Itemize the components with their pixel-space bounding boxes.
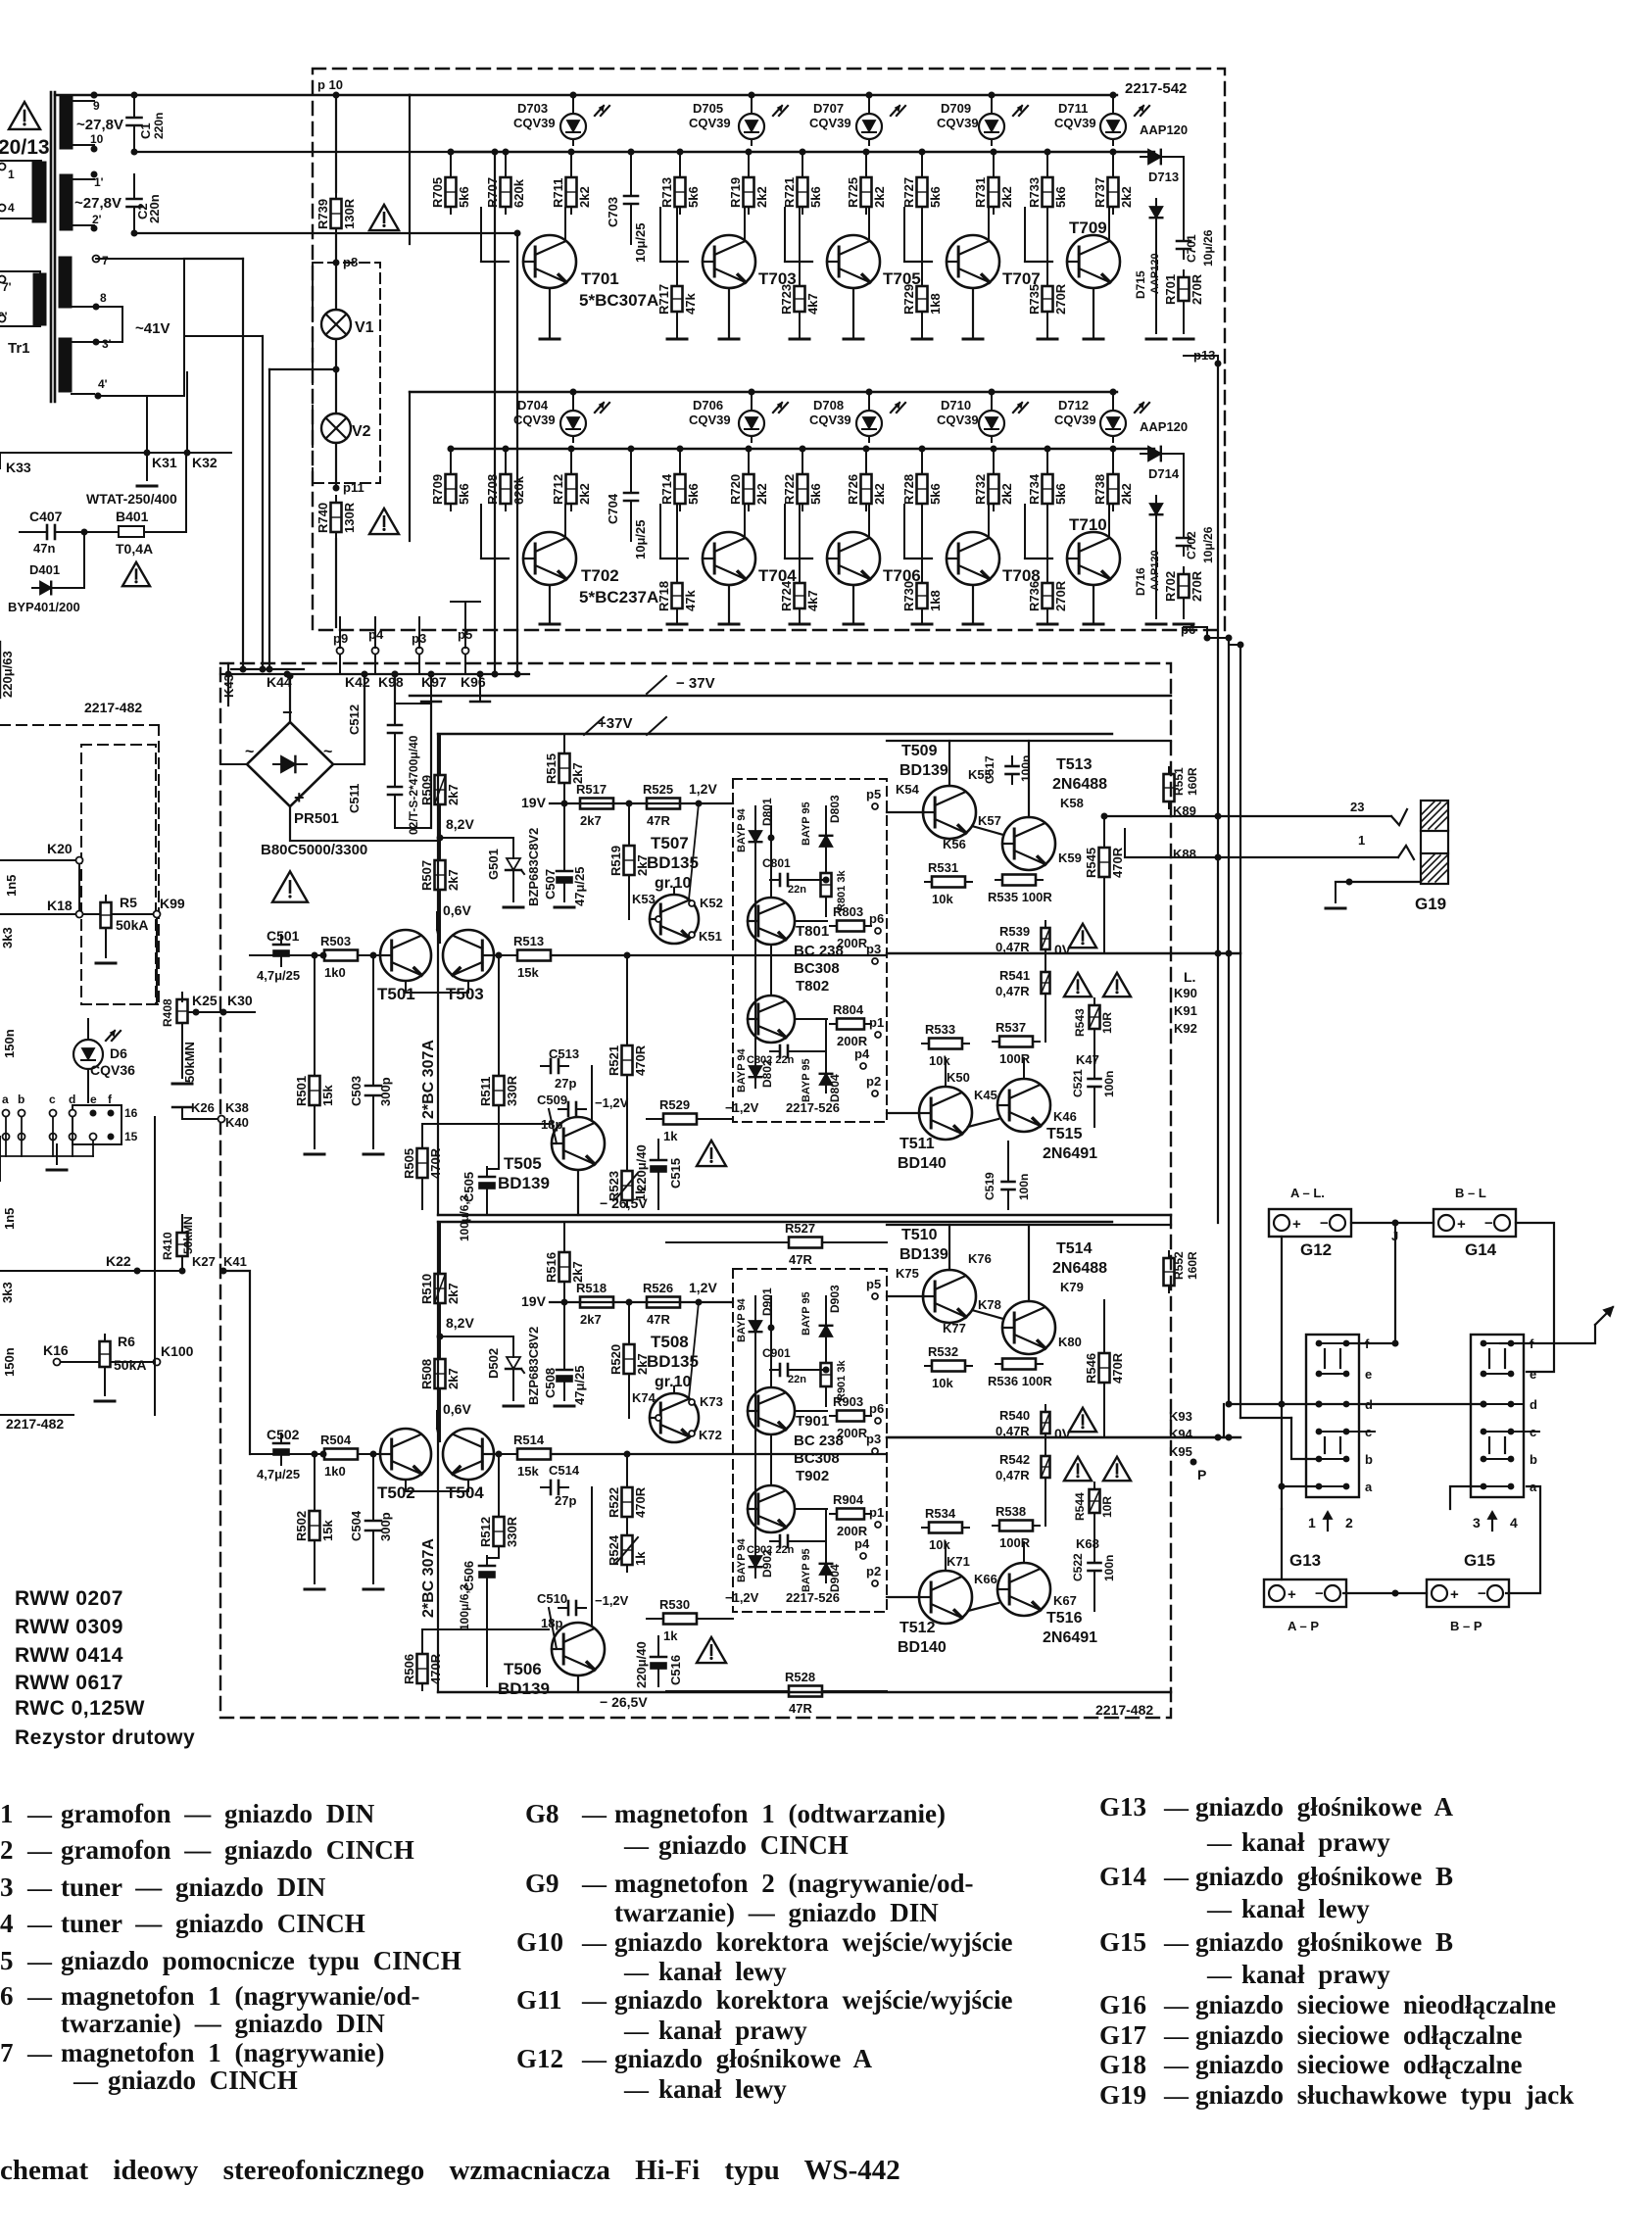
svg-text:R519: R519 — [608, 846, 623, 876]
winding 7-3 frame — [96, 259, 184, 396]
svg-text:470R: 470R — [1110, 847, 1125, 878]
wire row left edge — [409, 95, 411, 244]
svg-text:tuner — gniazdo CINCH: tuner — gniazdo CINCH — [61, 1909, 365, 1938]
wire R718 ground — [667, 608, 687, 624]
svg-text:8,2V: 8,2V — [446, 816, 474, 832]
resistor R544 10R — [1090, 1482, 1100, 1520]
svg-text:10: 10 — [90, 132, 104, 146]
wire R712 top — [568, 446, 575, 475]
jack G19 hatched upper — [1421, 801, 1448, 831]
label 0V — [1054, 942, 1072, 957]
svg-text:D710: D710 — [941, 398, 971, 413]
svg-text:15: 15 — [124, 1130, 138, 1143]
label 1n5 — [4, 875, 19, 897]
label T503 — [446, 985, 484, 1003]
svg-text:RWC 0,125W: RWC 0,125W — [15, 1697, 145, 1720]
node K97 — [421, 671, 447, 703]
resistor R732 2k2 — [973, 467, 1014, 510]
label T708 — [1002, 566, 1041, 585]
label BYP401/200 — [8, 600, 80, 614]
svg-text:130R: 130R — [342, 502, 357, 533]
legend G8b — [623, 1830, 849, 1860]
svg-text:19V: 19V — [521, 795, 547, 810]
svg-text:470R: 470R — [633, 1486, 648, 1518]
svg-text:D802: D802 — [760, 1059, 774, 1088]
svg-text:220μ/40: 220μ/40 — [634, 1641, 649, 1688]
svg-text:R721: R721 — [782, 177, 797, 208]
svg-text:—: — — [581, 1930, 607, 1957]
label RWW 0414 — [15, 1644, 123, 1667]
wire R728 top — [919, 446, 926, 475]
svg-text:K98: K98 — [378, 674, 404, 690]
label RWW 0309 — [15, 1616, 123, 1638]
svg-text:D706: D706 — [693, 398, 723, 413]
wire p9 row link — [340, 655, 465, 674]
svg-text:gniazdo korektora wejście/wyjś: gniazdo korektora wejście/wyjście — [614, 1985, 1012, 2015]
resistor R510 2k7 preset — [419, 1267, 461, 1310]
wire G15 right — [1506, 1486, 1540, 1593]
svg-text:16: 16 — [124, 1106, 138, 1120]
wire feeder B — [184, 336, 267, 673]
label 2217-482 left — [6, 1416, 64, 1432]
wire T703 collector — [744, 208, 746, 241]
wire T704 collector — [744, 505, 746, 538]
svg-text:R804: R804 — [833, 1002, 864, 1017]
capacitor C503 300p — [349, 1076, 381, 1106]
wire T707 base — [904, 208, 932, 262]
svg-text:T901: T901 — [796, 1413, 829, 1430]
resistor R542 0,47R b — [996, 1449, 1050, 1484]
svg-text:K32: K32 — [192, 455, 218, 470]
svg-text:BD139: BD139 — [899, 1246, 948, 1263]
svg-text:C502: C502 — [267, 1427, 300, 1442]
svg-text:C522: C522 — [1071, 1553, 1085, 1581]
svg-text:K92: K92 — [1174, 1021, 1197, 1036]
inner dashed box 2217-526 — [733, 779, 887, 1122]
capacitor C509 18p — [537, 1093, 586, 1116]
svg-text:K20: K20 — [47, 841, 73, 856]
resistor R541 0,47R b — [996, 965, 1050, 1000]
wire 0V rail — [887, 1434, 1240, 1441]
svg-text:K68: K68 — [1076, 1536, 1099, 1551]
label p2 — [866, 1074, 881, 1096]
svg-text:K40: K40 — [225, 1115, 249, 1130]
svg-text:10μ/26: 10μ/26 — [1201, 229, 1215, 267]
resistor R729 1k8 — [901, 279, 943, 318]
diode D401 — [29, 562, 62, 594]
legend G12 — [516, 2044, 873, 2073]
label p4 — [854, 1536, 870, 1559]
transistor T504 — [443, 1429, 494, 1480]
svg-text:5: 5 — [0, 1946, 14, 1975]
jack G19 body — [1421, 831, 1448, 853]
wire row rail top — [410, 94, 1117, 96]
wire switch feed b — [1240, 1418, 1316, 1459]
svg-text:2k7: 2k7 — [570, 762, 585, 784]
resistor R701 270R — [1163, 270, 1204, 308]
lamp V1 — [321, 310, 351, 339]
svg-text:—: — — [581, 1871, 607, 1898]
resistor 50kMN label — [172, 1042, 197, 1084]
transistor T708 — [947, 532, 999, 585]
capacitor 220u/63 — [0, 642, 15, 698]
transistor T510 BD139 drv — [899, 1227, 948, 1263]
svg-text:—: — — [581, 1802, 607, 1828]
svg-text:K76: K76 — [968, 1251, 992, 1266]
svg-text:—: — — [1206, 1897, 1233, 1923]
svg-text:CQV39: CQV39 — [1054, 413, 1096, 427]
svg-text:R517: R517 — [576, 782, 607, 797]
svg-text:p2: p2 — [866, 1074, 881, 1089]
svg-text:C704: C704 — [606, 493, 620, 524]
label 0V — [1054, 1426, 1072, 1441]
wire R721 top — [800, 149, 806, 178]
svg-text:R729: R729 — [901, 284, 916, 315]
label 1,2V — [689, 781, 717, 807]
svg-text:R506: R506 — [402, 1654, 416, 1684]
transistor T701 — [523, 235, 576, 288]
resistor R503 1k0 — [317, 934, 364, 980]
label -1,2V a — [595, 1095, 629, 1110]
svg-text:160R: 160R — [1186, 767, 1199, 796]
wire driver link — [887, 1225, 1171, 1319]
label T705 — [883, 269, 921, 288]
svg-text:K100: K100 — [161, 1343, 194, 1359]
transistor T515 2N6491 — [997, 1079, 1050, 1132]
svg-text:R504: R504 — [320, 1433, 352, 1447]
wire base right — [494, 1453, 887, 1455]
label P — [1190, 1459, 1207, 1483]
transistor T509 BD139 drv — [899, 743, 948, 779]
wire 4 to K31 — [98, 396, 147, 453]
transistor T710 — [1067, 532, 1120, 585]
resistor R519 2k7 v — [608, 839, 650, 882]
wire diode out — [1113, 449, 1184, 530]
svg-text:15k: 15k — [320, 1520, 335, 1541]
svg-text:BAYP 94: BAYP 94 — [736, 1537, 748, 1582]
label ~27,8V winding 1 — [76, 117, 123, 133]
svg-text:—: — — [1163, 2053, 1190, 2079]
wire bridge plus — [290, 806, 438, 841]
svg-text:2N6491: 2N6491 — [1043, 1629, 1097, 1646]
svg-text:1: 1 — [1308, 1515, 1316, 1530]
wire headphone sleeve — [1326, 879, 1421, 909]
svg-text:kanał lewy: kanał lewy — [658, 2074, 787, 2104]
svg-text:p5: p5 — [866, 787, 881, 802]
svg-text:330R: 330R — [505, 1075, 519, 1106]
wire T709 collector — [1108, 208, 1110, 241]
dashed sub-box lamps — [313, 263, 380, 483]
svg-text:BAYP 95: BAYP 95 — [801, 1058, 812, 1102]
resistor R708 620k — [485, 467, 526, 510]
label T706 — [883, 566, 921, 585]
svg-text:gramofon — gniazdo DIN: gramofon — gniazdo DIN — [61, 1799, 375, 1828]
svg-text:330R: 330R — [505, 1516, 519, 1547]
resistor R537 100R b — [993, 1020, 1040, 1066]
legend G13 — [1099, 1792, 1454, 1822]
svg-text:2k7: 2k7 — [446, 1283, 461, 1304]
svg-text:C504: C504 — [349, 1510, 364, 1541]
svg-text:D711: D711 — [1058, 101, 1088, 116]
wire driver link — [887, 741, 1171, 835]
resistor R515 2k7 top — [544, 747, 585, 790]
resistor R738 2k2 — [1093, 467, 1134, 510]
svg-text:T502: T502 — [377, 1483, 415, 1502]
svg-text:BAYP 95: BAYP 95 — [801, 802, 812, 846]
resistor R726 2k2 — [846, 467, 887, 510]
labels K93 K94 K95 — [1169, 1409, 1193, 1459]
svg-text:R731: R731 — [973, 177, 988, 208]
svg-text:D707: D707 — [813, 101, 844, 116]
svg-text:~27,8V: ~27,8V — [76, 117, 123, 133]
svg-text:T702: T702 — [581, 566, 619, 585]
label 8,2V — [437, 816, 475, 842]
svg-text:C515: C515 — [668, 1158, 683, 1189]
svg-text:R803: R803 — [833, 904, 863, 919]
wire out lower — [887, 949, 1045, 1127]
connector box 16/15 — [73, 1105, 138, 1144]
wire R734 top — [1045, 446, 1051, 475]
svg-text:C1: C1 — [138, 122, 153, 139]
wire feeder A — [240, 259, 247, 673]
label 3k3 b — [0, 1282, 15, 1303]
resistor R733 5k6 — [1027, 170, 1068, 214]
wire switch A f out — [1346, 1227, 1399, 1347]
svg-text:p1: p1 — [869, 1015, 884, 1030]
capacitor C510 18p — [537, 1591, 586, 1615]
svg-text:2217-542: 2217-542 — [1125, 80, 1187, 97]
svg-text:10k: 10k — [932, 892, 953, 906]
resistor R523 1k preset — [607, 1164, 648, 1207]
node K89 — [1173, 803, 1196, 818]
svg-text:47R: 47R — [647, 813, 670, 828]
bridge rectifier PR501 — [247, 722, 333, 806]
svg-text:47R: 47R — [647, 1312, 670, 1327]
svg-text:C503: C503 — [349, 1076, 364, 1106]
resistor R506 470R v — [402, 1647, 443, 1690]
svg-text:T513: T513 — [1056, 756, 1093, 773]
svg-text:2k7: 2k7 — [446, 1368, 461, 1389]
svg-text:K41: K41 — [223, 1254, 247, 1269]
svg-text:T801: T801 — [796, 923, 829, 940]
resistor R546 470R v — [1084, 1346, 1125, 1389]
svg-text:R508: R508 — [419, 1359, 434, 1389]
svg-text:K31: K31 — [152, 455, 177, 470]
svg-text:2217-482: 2217-482 — [1095, 1702, 1153, 1718]
label K33 — [0, 453, 31, 475]
label RWW 0207 — [15, 1587, 123, 1610]
terminal box G15 — [1427, 1579, 1509, 1607]
svg-text:K22: K22 — [106, 1253, 131, 1269]
svg-text:K71: K71 — [947, 1554, 970, 1569]
capacitor C522 100n — [1071, 1553, 1116, 1581]
label D714 — [1148, 466, 1180, 481]
svg-text:4,7μ/25: 4,7μ/25 — [257, 1467, 300, 1482]
resistor R511 330R — [478, 1069, 519, 1112]
wire R740 down — [335, 539, 337, 627]
label BZP683C8V2 — [526, 828, 541, 906]
svg-text:100μ/6,3: 100μ/6,3 — [458, 1583, 471, 1630]
svg-text:100R: 100R — [999, 1051, 1031, 1066]
fuse B401 T0,4A — [88, 453, 186, 557]
svg-text:R522: R522 — [607, 1487, 621, 1518]
label 1n5 b — [2, 1208, 17, 1230]
diode D902 BAYP94 low — [736, 1537, 774, 1582]
svg-text:T501: T501 — [377, 985, 415, 1003]
wire switch B a down — [1450, 1486, 1481, 1509]
svg-text:2N6491: 2N6491 — [1043, 1145, 1097, 1162]
svg-text:B80C5000/3300: B80C5000/3300 — [261, 842, 367, 858]
svg-text:G18: G18 — [1099, 2050, 1146, 2079]
svg-text:G13: G13 — [1099, 1792, 1146, 1822]
svg-text:− 26,5V: − 26,5V — [600, 1694, 648, 1710]
svg-text:D715: D715 — [1134, 270, 1147, 299]
svg-text:T515: T515 — [1046, 1126, 1083, 1142]
labels K drv — [896, 767, 1084, 865]
svg-text:BAYP 94: BAYP 94 — [736, 1297, 748, 1342]
svg-text:T511: T511 — [899, 1136, 935, 1152]
legend G5 — [0, 1946, 462, 1975]
label 1,2V — [689, 1280, 717, 1306]
resistor R533 10k b — [922, 1022, 969, 1068]
svg-text:CQV39: CQV39 — [809, 116, 851, 130]
svg-text:10μ/25: 10μ/25 — [633, 223, 648, 264]
svg-text:R527: R527 — [785, 1221, 815, 1236]
transistor T706 — [827, 532, 880, 585]
capacitor C801 22n — [762, 856, 798, 886]
svg-text:4: 4 — [8, 201, 15, 215]
svg-text:~27,8V: ~27,8V — [74, 195, 121, 212]
resistor R731 2k2 — [973, 170, 1014, 214]
svg-text:b: b — [1530, 1452, 1537, 1467]
label A-P — [1288, 1619, 1319, 1633]
capacitor C702 — [1177, 528, 1198, 559]
svg-text:2k2: 2k2 — [999, 483, 1014, 505]
wire 27.8V-2 rail — [131, 149, 496, 156]
label T501 — [377, 985, 415, 1003]
svg-text:CQV39: CQV39 — [513, 413, 556, 427]
label 4700u — [407, 735, 420, 835]
svg-text:b: b — [1365, 1452, 1373, 1467]
legend G2 — [0, 1835, 414, 1865]
wire T507 collector up — [674, 803, 699, 899]
svg-text:8,2V: 8,2V — [446, 1315, 474, 1331]
svg-text:—: — — [26, 1875, 53, 1902]
svg-text:2k2: 2k2 — [872, 483, 887, 505]
svg-text:7: 7 — [102, 254, 109, 267]
resistor R538 100R b — [993, 1504, 1040, 1550]
svg-text:—: — — [1163, 1795, 1190, 1822]
svg-text:T710: T710 — [1069, 515, 1107, 534]
resistor R518 2k7 h — [573, 1281, 620, 1327]
svg-text:BC308: BC308 — [794, 1450, 840, 1467]
inner dashed box 2217-526 — [733, 1269, 887, 1612]
svg-text:200R: 200R — [837, 1426, 868, 1440]
label T701 5*BC307A — [579, 269, 658, 310]
svg-text:BD139: BD139 — [899, 762, 948, 779]
wire bridge minus — [287, 673, 294, 723]
svg-text:15k: 15k — [517, 965, 539, 980]
flash marks D703 — [595, 106, 609, 116]
svg-text:47k: 47k — [683, 293, 698, 315]
legend G8 — [525, 1799, 946, 1828]
wire T702 emitter — [540, 585, 559, 624]
label -1,2V b — [725, 1590, 759, 1605]
label T707 — [1002, 269, 1041, 288]
wire R722 top — [800, 446, 806, 475]
capacitor C1 220n — [127, 108, 142, 135]
svg-text:p6: p6 — [1181, 622, 1195, 637]
svg-text:gniazdo korektora wejście/wyjś: gniazdo korektora wejście/wyjście — [614, 1927, 1012, 1957]
svg-text:RWW 0207: RWW 0207 — [15, 1587, 123, 1610]
wire k43 row — [231, 668, 304, 670]
svg-text:K80: K80 — [1058, 1335, 1082, 1349]
wire out lower — [887, 1433, 1045, 1611]
diode D901 BAYP94 — [736, 1297, 761, 1342]
wire R724 ground — [790, 608, 809, 624]
svg-text:3: 3 — [1473, 1515, 1481, 1530]
label 2217-542 — [1125, 80, 1187, 97]
svg-text:C703: C703 — [606, 197, 620, 227]
resistor R727 5k6 — [901, 170, 943, 214]
label Tr1 — [8, 340, 30, 357]
diode D715 AAP120 — [1134, 199, 1162, 299]
zener diode D502 — [486, 1347, 524, 1379]
svg-text:5k6: 5k6 — [808, 186, 823, 208]
svg-text:R513: R513 — [513, 934, 544, 948]
svg-text:K47: K47 — [1076, 1052, 1099, 1067]
label p2 — [866, 1564, 881, 1586]
svg-text:K91: K91 — [1174, 1003, 1197, 1018]
svg-text:K53: K53 — [632, 892, 656, 906]
labels K around T508 — [632, 1390, 723, 1442]
winding bar lower-left — [33, 273, 46, 325]
svg-text:P: P — [1197, 1467, 1206, 1482]
svg-text:magnetofon 1 (odtwarzanie): magnetofon 1 (odtwarzanie) — [614, 1799, 946, 1828]
terminal box G14 — [1433, 1209, 1516, 1237]
svg-text:10k: 10k — [929, 1053, 950, 1068]
labels K around T507 — [632, 892, 723, 944]
connector ground — [47, 1144, 67, 1170]
svg-text:K51: K51 — [699, 929, 722, 944]
wire T702 collector — [564, 505, 566, 538]
svg-text:gniazdo CINCH: gniazdo CINCH — [658, 1830, 849, 1860]
svg-text:K18: K18 — [47, 898, 73, 913]
label p1 — [869, 1015, 884, 1038]
wire R732 top — [991, 446, 997, 475]
flash marks D712 — [1135, 403, 1149, 413]
resistor R739 130R — [316, 192, 357, 235]
svg-text:RWW 0617: RWW 0617 — [15, 1672, 123, 1694]
svg-text:C512: C512 — [347, 705, 362, 735]
svg-text:—: — — [26, 1949, 53, 1975]
wire R711 top — [568, 149, 575, 178]
label p1 — [869, 1505, 884, 1528]
svg-text:2: 2 — [1345, 1515, 1353, 1530]
svg-text:47μ/25: 47μ/25 — [572, 1366, 587, 1406]
capacitor C407 47n — [29, 509, 65, 539]
svg-text:kanał lewy: kanał lewy — [658, 1957, 787, 1986]
svg-text:C509: C509 — [537, 1093, 567, 1107]
svg-text:10R: 10R — [1100, 1496, 1114, 1518]
svg-text:R520: R520 — [608, 1344, 623, 1375]
resistor R524 1k preset — [607, 1529, 648, 1572]
svg-text:V1: V1 — [355, 319, 374, 336]
svg-text:10μ/26: 10μ/26 — [1201, 526, 1215, 563]
svg-text:C519: C519 — [983, 1172, 996, 1200]
svg-text:220n: 220n — [147, 194, 162, 223]
svg-text:p5: p5 — [866, 1277, 881, 1291]
